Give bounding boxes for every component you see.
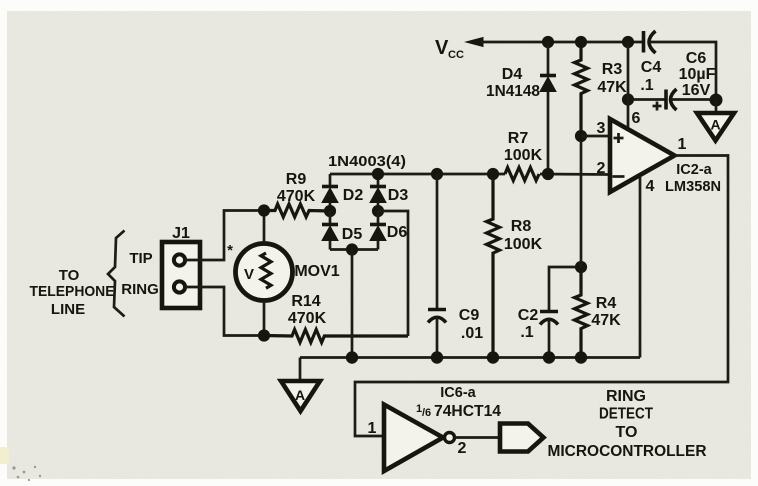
svg-text:LINE: LINE [51,301,85,318]
wire TIP: J1 to R9/MOV node [185,211,264,261]
junction dot pin3 node [575,130,586,141]
inverter IC6-a triangle [384,405,443,472]
wire C6 row right segment [671,98,716,101]
capacitor C4 left plate [642,31,646,53]
capacitor C6 left plate [664,90,668,110]
svg-text:TO: TO [616,424,638,441]
svg-text:J1: J1 [172,225,190,242]
junction dot R4 top / C2 [575,261,586,272]
capacitor C2 bottom lead [548,319,551,358]
capacitor C9 straight plate [428,308,446,312]
svg-text:MOV1: MOV1 [294,263,339,280]
junction dot R14/MOV/RING [258,330,269,341]
junction dot C6 row / pin6 column [622,94,633,105]
wire D4 anode down to inverting row [547,92,550,175]
junction dot bus/R4 [575,352,586,363]
connector J1 pin TIP [174,254,185,265]
ground bus wire [300,356,640,359]
wire C2 top lead to R4 node [549,267,581,311]
svg-text:.1: .1 [640,77,653,94]
junction dot D3/D6 midpoint [372,205,383,216]
varistor MOV1 body [236,244,293,301]
wire pin 3 lead [581,135,610,138]
junction dot Vcc/R3 [575,36,586,47]
svg-text:470K: 470K [288,310,327,327]
output flag symbol [500,424,544,452]
Vcc rail arrowhead [466,38,483,47]
svg-text:V: V [244,266,254,283]
junction dot R9/MOV/TIP [258,205,269,216]
svg-text:74HCT14: 74HCT14 [434,403,501,420]
svg-text:TO: TO [59,267,80,284]
svg-text:2: 2 [597,160,606,177]
wire pin 4 column to bus [639,177,642,358]
wire MOV1 bottom lead [263,301,266,336]
wire D6 anode to bottom bar [377,241,380,250]
svg-text:3: 3 [597,120,606,137]
resistor R7 zigzag [505,168,539,181]
resistor R14 zigzag [264,330,408,343]
wire inverting row: bridge to R7 left [330,173,505,176]
svg-text:R8: R8 [511,218,532,235]
diode D5 lead and cathode bar [329,211,332,225]
svg-text:D4: D4 [502,66,523,83]
svg-text:10µF: 10µF [679,66,716,83]
junction dot bus/bridge center [346,352,357,363]
wire inverter output to flag [455,436,500,439]
svg-text:TIP: TIP [129,250,152,267]
junction dot Vcc/pin6 column [622,36,633,47]
svg-text:47K: 47K [597,79,627,96]
capacitor C6 plus sign [653,102,662,111]
capacitor C2 straight plate [540,310,558,314]
node: TO TELEPHONE LINE label [30,267,115,318]
capacitor C6 curved plate [671,89,677,110]
svg-text:A: A [295,387,305,403]
svg-text:1N4148: 1N4148 [486,83,540,100]
junction dot inverting row / D3 [372,168,383,179]
wire pin6 column [627,42,630,130]
capacitor C9 curved plate [428,317,446,322]
svg-text:470K: 470K [277,188,316,205]
junction dot inverting row / C9 [431,168,442,179]
capacitor C2 curved plate [540,319,558,324]
svg-text:/6: /6 [422,407,431,419]
junction dot inverting row / D4 [542,168,553,179]
wire D5 anode to bottom bar [329,241,332,250]
diode D4 cathode bar [540,74,556,78]
node Vcc label [435,37,464,61]
svg-text:C4: C4 [641,59,662,76]
wire Vcc rail left segment [480,41,642,44]
svg-text:100K: 100K [504,236,543,253]
svg-text:TELEPHONE: TELEPHONE [30,283,115,300]
resistor R3 zigzag [575,42,588,136]
wire D2 anode to midpoint [329,203,332,212]
svg-text:LM358N: LM358N [665,179,721,195]
svg-text:R7: R7 [508,130,529,147]
junction dot D2/D5 midpoint [324,205,335,216]
wire bridge center drop to ground bus [351,250,354,358]
svg-text:D6: D6 [387,224,408,241]
diode D6 triangle [370,226,386,241]
svg-text:1: 1 [368,420,377,437]
diode D2 lead and cathode bar [329,174,332,187]
svg-text:.01: .01 [461,325,483,342]
svg-text:1: 1 [678,136,687,153]
svg-text:D3: D3 [388,187,409,204]
wire bridge right output to R14 row [378,211,408,336]
junction dot inverting row / R8 [487,168,498,179]
svg-text:R3: R3 [602,61,623,78]
junction dot Vcc/D4 [542,36,553,47]
svg-text:100K: 100K [504,147,543,164]
op-amp minus input mark [613,175,625,178]
resistor R8 zigzag and leads [487,174,500,358]
svg-text:R9: R9 [286,171,307,188]
wire bridge bottom bar [330,248,378,251]
diode D3 lead and cathode bar [377,174,380,187]
svg-text:CC: CC [448,49,464,61]
op-amp IC2-a body [610,119,675,192]
svg-text:4: 4 [646,178,655,195]
capacitor C4 curved plate [649,31,656,53]
wire C6 row left segment [628,98,665,101]
junction dot C6 right / ground A [710,94,722,106]
svg-text:C9: C9 [459,307,480,324]
wire op-amp output and feedback loop [355,156,728,437]
junction dot bus/C9 [431,352,442,363]
resistor R4 zigzag and leads [575,267,588,358]
svg-text:C2: C2 [518,307,539,324]
junction dot bus/C2 [543,352,554,363]
node RING DETECT TO MICROCONTROLLER label [548,388,707,460]
wire Vcc rail right segment to corner and down [649,42,716,100]
junction dot bridge bottom center [346,244,357,255]
diode D4 top lead [547,42,550,75]
connector J1 pin RING [174,281,185,292]
wire R3-R4 column pin3 node down to R4 [580,136,583,267]
capacitor C9 bottom lead [436,317,439,358]
svg-text:IC2-a: IC2-a [676,162,712,178]
op-amp plus input mark [614,133,624,143]
diode D3 triangle [370,188,386,203]
inverter output bubble [445,433,455,443]
svg-text:D5: D5 [342,226,363,243]
svg-text:47K: 47K [591,312,621,329]
svg-text:*: * [227,242,233,259]
svg-text:IC6-a: IC6-a [440,385,476,401]
svg-text:DETECT: DETECT [599,406,653,423]
wire bus drop to ground A (left) [299,358,302,382]
svg-text:V: V [435,37,449,59]
resistor R9 zigzag [264,204,330,217]
svg-text:R4: R4 [596,295,617,312]
svg-text:6: 6 [632,110,641,127]
diode D2 triangle [322,188,338,203]
capacitor C9 top lead [436,174,439,309]
wire RING: J1 to R14 row [185,287,264,336]
wire to ground A symbol [715,100,718,113]
svg-text:MICROCONTROLLER: MICROCONTROLLER [548,443,707,460]
diode D4 triangle [540,77,556,92]
wire inverting row: R7 right to op-amp pin 2 [540,173,610,176]
svg-text:RING: RING [121,281,159,298]
brace for telephone line [108,231,125,317]
svg-text:RING: RING [606,388,646,405]
varistor MOV1 zigzag element [261,253,271,288]
svg-text:A: A [710,117,720,133]
diode D6 lead and cathode bar [377,211,380,225]
svg-text:R14: R14 [291,293,320,310]
connector J1 body [162,242,200,308]
wire D3 anode to midpoint [377,203,380,212]
svg-text:D2: D2 [343,187,364,204]
svg-text:2: 2 [458,440,467,457]
inverter value 1/6 74HCT14 [416,403,501,420]
junction dot bus/R8 [487,352,498,363]
wire MOV1 top lead [263,211,266,244]
svg-text:1N4003(4): 1N4003(4) [328,153,406,170]
ground A symbol (left) [281,381,320,411]
svg-text:C6: C6 [686,50,707,67]
svg-text:.1: .1 [520,324,533,341]
diode D5 triangle [322,226,338,241]
svg-text:16V: 16V [682,82,711,99]
ground A symbol (top right) [697,113,734,141]
